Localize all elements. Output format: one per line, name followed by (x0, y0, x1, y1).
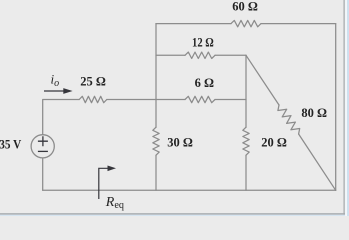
wire: right bus upper (12 ohm node down to 20 ohm) (245, 55, 247, 127)
equivalent-resistance arrow R_eq (99, 166, 116, 200)
svg-text:35 V: 35 V (0, 137, 21, 151)
resistor 80 ohm (diagonal) (278, 105, 300, 134)
source minus polarity mark (38, 150, 48, 152)
wire: left bus lower (30 ohm to bottom rail) (155, 155, 157, 190)
resistor 12 ohm (185, 52, 215, 58)
svg-text:60 Ω: 60 Ω (232, 0, 258, 14)
svg-text:12 Ω: 12 Ω (192, 35, 214, 49)
voltage source 35 V (independent source circle) (31, 135, 54, 158)
resistor 20 ohm (vertical on right bus) (243, 127, 249, 155)
resistor 6 ohm (185, 96, 215, 102)
svg-text:30 Ω: 30 Ω (167, 135, 193, 149)
wire: diagonal upper lead to 80 ohm (246, 55, 279, 105)
wire: right vertical rail (335, 24, 337, 191)
wire: right bus lower (20 ohm to bottom rail) (245, 155, 247, 190)
wire: top rail left segment (156, 23, 231, 25)
wire: top rail right segment (261, 23, 336, 25)
wire: bottom rail (43, 189, 336, 191)
current arrow i_o (44, 88, 73, 94)
resistor 30 ohm (vertical on left bus) (153, 127, 159, 155)
wire: diagonal lower lead to bottom-right corner (299, 134, 336, 190)
wire: left bus upper (top rail corner down to 30 ohm) (155, 24, 157, 128)
resistor 60 ohm (top rail) (231, 20, 261, 26)
wire: left branch top (source top to node A via corner) (43, 100, 79, 135)
wire: 25 ohm to left bus (107, 99, 156, 101)
wire: 12 ohm row right lead (215, 54, 246, 56)
wire: 6 ohm to right bus (215, 99, 246, 101)
svg-text:6 Ω: 6 Ω (195, 76, 214, 90)
resistor 25 ohm (series, top-left) (79, 96, 107, 102)
svg-text:20 Ω: 20 Ω (261, 135, 287, 149)
wire: 12 ohm row left lead (156, 54, 185, 56)
source plus polarity mark (38, 136, 48, 146)
wire: left bus to 6 ohm (156, 99, 185, 101)
svg-text:80 Ω: 80 Ω (301, 106, 327, 120)
svg-text:25 Ω: 25 Ω (80, 75, 106, 89)
wire: source bottom to bottom rail (42, 158, 44, 190)
